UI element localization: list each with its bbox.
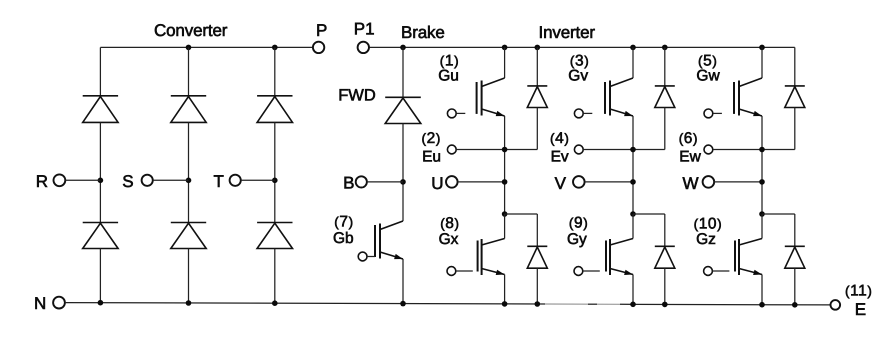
terminal N bbox=[53, 297, 65, 309]
wire emitter Gu down bbox=[504, 116, 506, 214]
wire converter leg 2 middle bbox=[188, 122, 190, 222]
terminal gate Gw bbox=[704, 109, 713, 118]
transistor Gv (upper IGBT) bbox=[605, 78, 633, 116]
terminal gate Gu bbox=[447, 109, 456, 118]
svg-text:Gv: Gv bbox=[568, 68, 588, 85]
wire collector upper Gu bbox=[504, 47, 506, 78]
transistor Gu (upper IGBT) bbox=[477, 78, 505, 116]
node junction bottom leg V bbox=[630, 302, 636, 308]
wire bottom rail mid to E bbox=[620, 303, 831, 306]
node junction top rail leg U bbox=[502, 45, 508, 51]
svg-text:P1: P1 bbox=[354, 20, 375, 39]
wire converter leg 2 upper bbox=[188, 47, 190, 95]
terminal P1 bbox=[358, 42, 369, 53]
wire R lead bbox=[65, 179, 100, 181]
diode freewheel lower V bbox=[655, 246, 675, 268]
svg-text:Ew: Ew bbox=[679, 149, 701, 166]
wire upper freewheel diode drop W bbox=[794, 47, 796, 86]
svg-text:(2): (2) bbox=[422, 130, 441, 147]
svg-text:Ev: Ev bbox=[551, 149, 569, 166]
wire emitter Gx to rail bbox=[504, 275, 506, 304]
terminal Ev bbox=[574, 145, 583, 154]
wire emitter Gy to rail bbox=[632, 275, 634, 305]
svg-text:Gz: Gz bbox=[696, 231, 716, 248]
terminal gate Gv bbox=[574, 109, 583, 118]
diode freewheel upper W bbox=[785, 86, 805, 108]
terminal V bbox=[573, 176, 585, 188]
node junction top rail diode U bbox=[535, 45, 541, 51]
wire emitter Gz to rail bbox=[761, 275, 763, 305]
terminal gate Gz bbox=[704, 267, 713, 276]
wire Gb gate lead bbox=[367, 256, 375, 258]
wire B lead bbox=[367, 181, 403, 183]
svg-text:Gb: Gb bbox=[333, 230, 354, 247]
wire converter leg 2 lower bbox=[188, 249, 190, 304]
svg-text:P: P bbox=[316, 21, 327, 40]
svg-text:Gx: Gx bbox=[439, 231, 459, 248]
svg-text:Gw: Gw bbox=[696, 68, 720, 85]
diode converter upper leg 2 bbox=[171, 96, 206, 123]
wire converter leg 3 middle bbox=[274, 122, 276, 222]
wire Ew lead bbox=[713, 149, 795, 151]
terminal W bbox=[703, 176, 715, 188]
svg-text:(7): (7) bbox=[334, 214, 353, 231]
node junction top rail diode V bbox=[662, 45, 668, 51]
terminal S bbox=[142, 175, 153, 186]
wire upper diode to Ew wire bbox=[794, 108, 796, 150]
wire P1 rail bbox=[369, 46, 795, 48]
wire Eu lead bbox=[456, 149, 537, 151]
node junction brake top bbox=[400, 45, 406, 51]
transistor Gy (lower IGBT) bbox=[606, 239, 633, 276]
svg-text:W: W bbox=[683, 174, 699, 193]
diode freewheel lower W bbox=[785, 246, 805, 268]
svg-text:Gy: Gy bbox=[567, 231, 587, 248]
wire Gw gate stub bbox=[713, 112, 722, 114]
terminal T bbox=[230, 175, 241, 186]
wire emitter Gw down bbox=[761, 116, 763, 214]
wire W lead bbox=[714, 181, 762, 183]
svg-text:Inverter: Inverter bbox=[539, 23, 596, 42]
wire Ev lead bbox=[583, 149, 665, 151]
wire bottom rail N to mid bbox=[65, 303, 545, 304]
svg-text:(6): (6) bbox=[679, 130, 698, 147]
svg-text:Brake: Brake bbox=[401, 23, 445, 42]
node junction bottom conv leg2 bbox=[186, 300, 192, 306]
svg-text:Gu: Gu bbox=[438, 68, 459, 85]
wire upper diode to Eu wire bbox=[536, 108, 538, 150]
node junction top leg3 bbox=[272, 45, 278, 51]
node junction lower diode branch U bbox=[502, 211, 508, 217]
wire brake leg to B bbox=[402, 124, 404, 222]
terminal gate Gx bbox=[447, 267, 456, 276]
terminal Eu bbox=[447, 145, 456, 154]
transistor Gx (lower IGBT) bbox=[478, 239, 505, 276]
wire lower diode branch W bbox=[762, 213, 795, 215]
node junction V bbox=[630, 179, 636, 185]
svg-text:N: N bbox=[34, 294, 46, 313]
node junction Eu bbox=[502, 147, 508, 153]
svg-text:T: T bbox=[214, 172, 224, 191]
wire brake emitter down bbox=[402, 259, 404, 304]
svg-text:Converter: Converter bbox=[154, 21, 228, 40]
wire lower diode to rail V bbox=[664, 268, 666, 304]
node junction Ew bbox=[759, 147, 765, 153]
transistor Q7 Gb (brake IGBT) bbox=[375, 221, 403, 259]
wire converter leg 1 middle bbox=[99, 122, 101, 222]
wire T lead bbox=[241, 179, 275, 181]
wire collector lower Gz bbox=[761, 214, 763, 239]
wire V lead bbox=[585, 181, 633, 183]
terminal gate Gy bbox=[574, 267, 583, 276]
wire U lead bbox=[458, 181, 505, 183]
diode converter upper leg 1 bbox=[83, 96, 118, 123]
terminal U bbox=[446, 176, 458, 188]
terminal B bbox=[356, 176, 367, 187]
wire converter leg 3 lower bbox=[274, 249, 276, 304]
node junction top rail leg W bbox=[759, 45, 765, 51]
wire converter leg 3 upper bbox=[274, 47, 276, 95]
wire brake leg upper bbox=[402, 47, 404, 97]
svg-text:R: R bbox=[36, 172, 48, 191]
wire collector upper Gv bbox=[632, 47, 634, 78]
transistor Gw (upper IGBT) bbox=[734, 78, 762, 116]
terminal gate Gb bbox=[358, 252, 367, 261]
wire emitter Gv down bbox=[632, 116, 634, 214]
wire upper diode to Ev wire bbox=[664, 108, 666, 150]
terminal Ew bbox=[704, 145, 713, 154]
wire lower diode to rail W bbox=[794, 268, 796, 305]
diode freewheel upper V bbox=[655, 86, 675, 108]
terminal P bbox=[313, 42, 324, 53]
wire converter leg 1 lower bbox=[99, 249, 101, 303]
node junction bottom leg W bbox=[759, 302, 765, 308]
node junction B bbox=[400, 179, 406, 185]
node junction brake bottom bbox=[400, 301, 406, 307]
svg-text:V: V bbox=[555, 174, 567, 193]
diode converter upper leg 3 bbox=[257, 96, 292, 123]
diode converter lower leg 3 bbox=[257, 223, 292, 249]
svg-text:U: U bbox=[431, 174, 443, 193]
svg-text:(4): (4) bbox=[550, 130, 569, 147]
svg-text:FWD: FWD bbox=[338, 86, 376, 104]
wire Gx gate stub bbox=[456, 270, 473, 272]
node junction bottom leg U bbox=[502, 301, 508, 307]
node junction bottom diode W bbox=[792, 302, 798, 308]
svg-text:(9): (9) bbox=[569, 214, 588, 231]
node junction lower diode branch V bbox=[630, 211, 636, 217]
wire lower diode branch U bbox=[505, 213, 538, 215]
node junction top leg2 bbox=[186, 45, 192, 51]
node junction top rail leg V bbox=[630, 45, 636, 51]
wire bottom rail faint segment bbox=[545, 303, 620, 305]
node junction bottom conv leg1 bbox=[98, 300, 104, 306]
wire lower diode to rail U bbox=[536, 268, 538, 304]
diode FWD brake bbox=[385, 97, 421, 123]
wire Gy gate stub bbox=[583, 270, 600, 272]
wire Gz gate stub bbox=[712, 270, 729, 272]
wire S lead bbox=[153, 179, 189, 181]
transistor Gz (lower IGBT) bbox=[735, 239, 762, 276]
terminal E (11) bbox=[831, 300, 841, 310]
svg-text:(10): (10) bbox=[694, 215, 723, 232]
node junction U bbox=[502, 179, 508, 185]
svg-text:(11): (11) bbox=[845, 282, 873, 299]
node input junction leg 2 bbox=[186, 178, 192, 184]
terminal R bbox=[54, 174, 66, 186]
node junction lower diode branch W bbox=[759, 211, 765, 217]
svg-text:Eu: Eu bbox=[422, 149, 441, 166]
wire upper freewheel diode drop V bbox=[664, 47, 666, 86]
wire Gv gate stub bbox=[583, 112, 592, 114]
node junction bottom conv leg3 bbox=[272, 300, 278, 306]
wire upper freewheel diode drop U bbox=[536, 47, 538, 86]
node junction Ev bbox=[630, 147, 636, 153]
wire converter leg 1 upper bbox=[99, 47, 101, 95]
svg-text:S: S bbox=[122, 172, 133, 191]
wire Gu gate stub bbox=[456, 112, 465, 114]
svg-text:(8): (8) bbox=[440, 215, 459, 232]
wire collector upper Gw bbox=[761, 47, 763, 78]
node input junction leg 1 bbox=[98, 178, 104, 184]
diode converter lower leg 2 bbox=[171, 223, 206, 249]
wire collector lower Gx bbox=[504, 214, 506, 239]
wire converter top rail bbox=[100, 46, 313, 48]
node junction bottom diode U bbox=[535, 301, 541, 307]
node junction W bbox=[759, 179, 765, 185]
node junction bottom diode V bbox=[662, 302, 668, 308]
svg-text:B: B bbox=[343, 173, 354, 192]
wire lower diode branch V bbox=[633, 213, 665, 215]
diode freewheel upper U bbox=[527, 86, 547, 108]
diode converter lower leg 1 bbox=[83, 223, 118, 249]
svg-text:E: E bbox=[855, 300, 866, 319]
diode freewheel lower U bbox=[527, 246, 547, 268]
wire collector lower Gy bbox=[632, 214, 634, 239]
node input junction leg 3 bbox=[272, 178, 278, 184]
